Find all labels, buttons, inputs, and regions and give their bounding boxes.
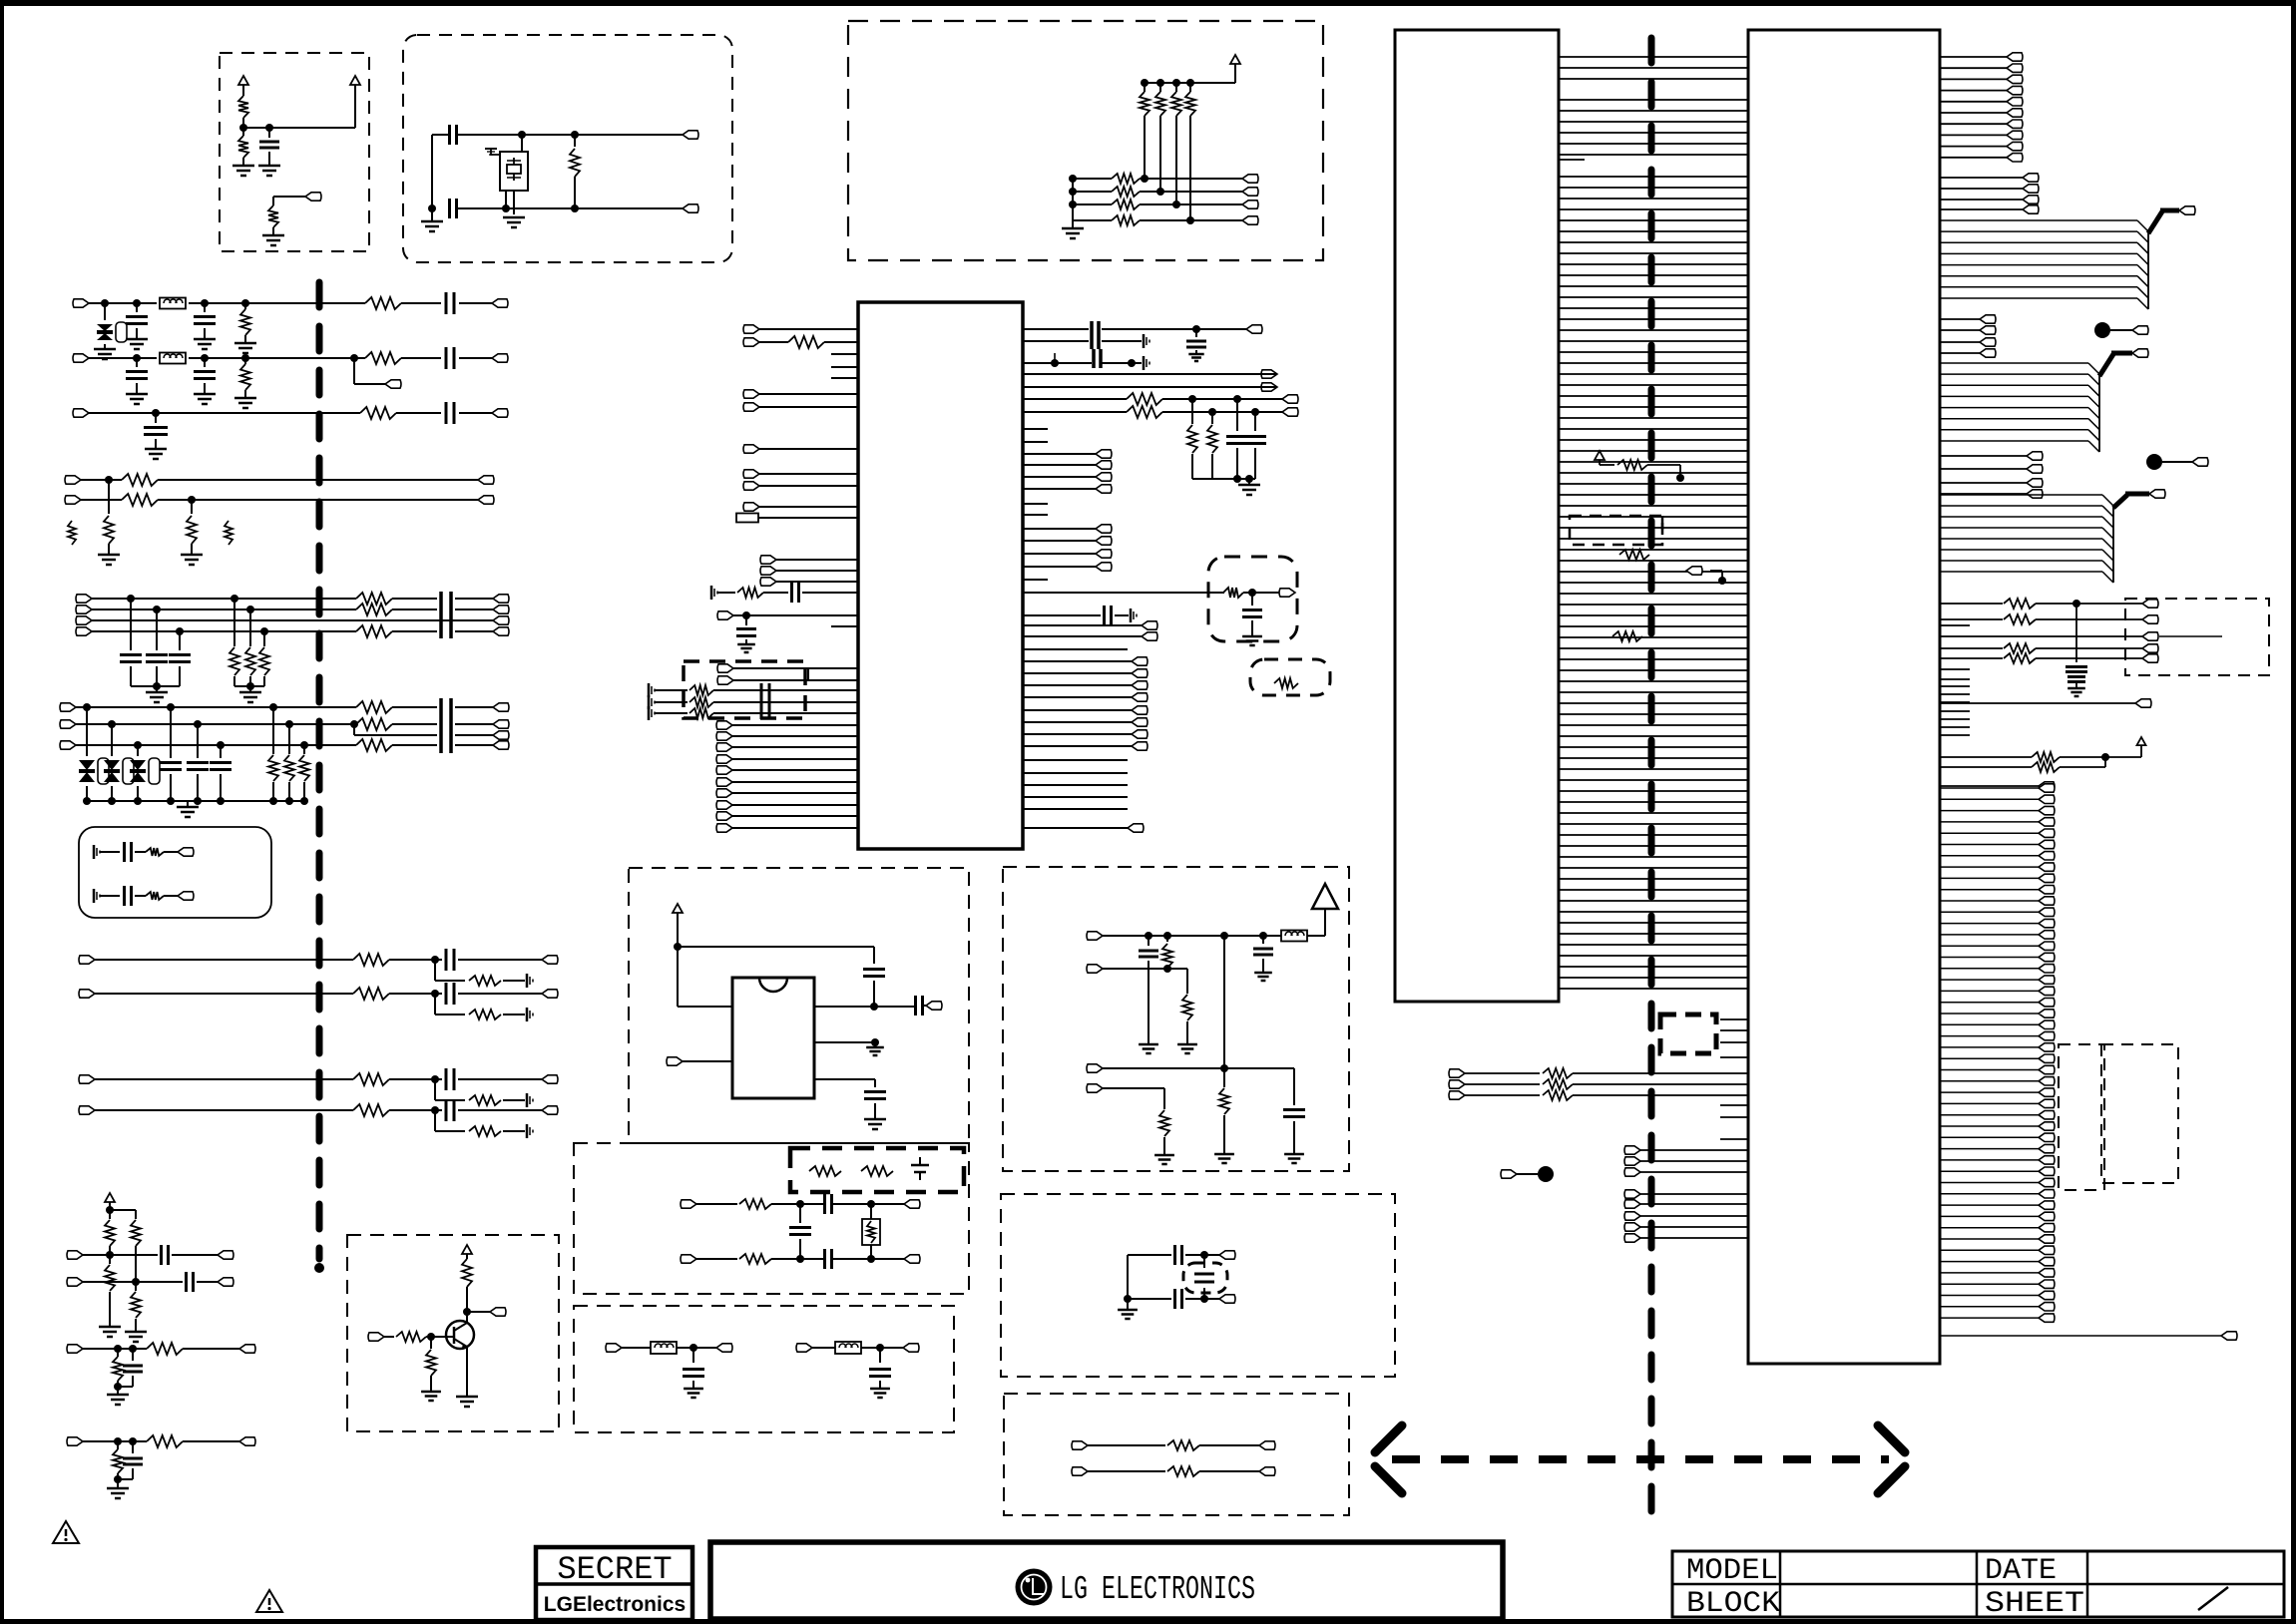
- resistor: [353, 954, 389, 966]
- resistor R4: [570, 135, 580, 208]
- dashed box regulator: [629, 868, 969, 1143]
- TVS diode D1: [94, 303, 127, 359]
- wire row4: [81, 476, 478, 484]
- resistor RT1: [462, 1259, 472, 1322]
- ground G6: [503, 217, 525, 227]
- power flag VDD2: [350, 76, 360, 128]
- branch resistor: [469, 1126, 501, 1136]
- connector PC3: [1242, 201, 1258, 208]
- branch wire: [435, 1079, 525, 1100]
- connector JR1: [923, 1002, 942, 1010]
- capacitor CA2: [1253, 936, 1273, 981]
- connector UL20: [716, 789, 858, 797]
- connector UR21: [1023, 706, 1148, 714]
- wire: [95, 1075, 542, 1083]
- capacitor C22: [169, 631, 191, 686]
- pull rail: [1192, 475, 1260, 495]
- resistor R19: [181, 500, 203, 565]
- resistor R27: [259, 631, 269, 686]
- wire row: [1624, 1234, 1748, 1242]
- resistor RA8: [1159, 1110, 1169, 1155]
- connector JK6: [903, 1344, 919, 1352]
- connector J21: [60, 720, 76, 728]
- capacitor C15: [126, 358, 148, 404]
- connector JK: [681, 1200, 737, 1208]
- transistor Q1: [446, 1321, 474, 1349]
- connector UR16: [1023, 632, 1157, 640]
- connector UL17: [716, 755, 858, 763]
- connector UL12: [760, 578, 858, 586]
- text MODEL: [1686, 1554, 1778, 1588]
- capacitor CA4: [1283, 1110, 1305, 1155]
- pin stubs CN2 lower: [1720, 1019, 1748, 1139]
- wire top rail: [432, 131, 683, 139]
- connector UL19: [716, 778, 858, 786]
- small ground: [527, 1124, 533, 1138]
- connector J23: [493, 703, 509, 711]
- wire pins CN2 right A: [1940, 53, 2023, 162]
- border frame bottom: [0, 1619, 2296, 1624]
- resistor RK: [739, 1254, 771, 1264]
- dashed box option X: [2125, 599, 2269, 675]
- capacitor C32: [123, 1441, 143, 1479]
- wire: [771, 1200, 904, 1208]
- ferrite bead FB3: [651, 1342, 677, 1354]
- wire row: [1624, 1223, 1748, 1231]
- wire bus rows: [92, 595, 493, 635]
- border frame right: [2291, 0, 2296, 1624]
- decoupled input row: [717, 611, 858, 652]
- ground GA5: [1284, 1154, 1304, 1163]
- resistor RA3: [1171, 83, 1181, 208]
- capacitor C20: [120, 599, 142, 686]
- wire row2: [1069, 188, 1242, 196]
- capacitor C12: [126, 303, 148, 349]
- power flag VF2: [2137, 737, 2146, 757]
- connector group D: [1940, 452, 2043, 498]
- connector UR13: [1023, 563, 1112, 571]
- wire row: [1624, 1157, 1748, 1165]
- wire: [861, 1344, 903, 1352]
- wire into U2 pin1: [678, 1006, 732, 1008]
- power flag VDD5: [673, 904, 683, 1007]
- pin stub: [831, 366, 858, 368]
- wire res row 4: [1940, 757, 2105, 772]
- resistor R45: [113, 1349, 123, 1387]
- resistor RA6: [1182, 995, 1192, 1044]
- resistor RB3: [1112, 200, 1140, 209]
- power flag VF1: [1595, 451, 1614, 465]
- crystal Y1: [500, 152, 528, 191]
- connector P2: [683, 131, 698, 139]
- wire bus CN1-CN2 main: [1559, 177, 1748, 989]
- connector UR25: [1023, 824, 1144, 832]
- ground G1: [232, 166, 254, 176]
- pin stub: [831, 625, 858, 627]
- pull resistor PR2: [1207, 412, 1217, 479]
- wire row: [67, 1437, 239, 1445]
- pin stub: [1023, 441, 1048, 443]
- connector JX1: [1219, 1251, 1235, 1259]
- connector P3: [683, 204, 698, 212]
- ground GA3: [1177, 1044, 1197, 1053]
- RC input row: [711, 583, 858, 603]
- connector PC4: [1242, 216, 1258, 224]
- net dot tap 1: [2094, 322, 2148, 338]
- connector: [542, 1106, 558, 1114]
- resistor R44: [147, 1343, 183, 1355]
- resistor R22: [356, 593, 392, 605]
- branch wire: [435, 994, 525, 1015]
- border frame top: [0, 0, 2296, 6]
- wire ant row4: [1087, 1084, 1164, 1109]
- resistor R24: [356, 625, 392, 637]
- connector UR11: [1023, 537, 1112, 545]
- wire res row 1: [1940, 599, 2142, 609]
- TVS diode D4: [130, 745, 160, 801]
- connector UL23: [716, 824, 858, 832]
- capacitor C28: [125, 886, 132, 906]
- connector UL3: [743, 390, 858, 398]
- connector JK2: [904, 1255, 920, 1263]
- connector J18: [493, 616, 509, 624]
- connector JS1: [1259, 1441, 1275, 1449]
- ground GR1: [864, 1119, 886, 1129]
- wire row1: [89, 299, 492, 307]
- resistor RK: [739, 1199, 771, 1209]
- connector JK3: [606, 1344, 651, 1352]
- wire base: [426, 1333, 454, 1341]
- wire row: [1624, 1146, 1748, 1154]
- wire pin column CN2 right: [1940, 784, 2055, 1323]
- wire: [677, 1344, 716, 1352]
- wire out U2: [814, 1006, 916, 1008]
- connector block CN1: [1395, 30, 1559, 1002]
- connector UL13b: [717, 668, 858, 684]
- resistor R3: [268, 205, 278, 235]
- connector UL15: [716, 732, 858, 740]
- gnd rail res: [234, 682, 264, 702]
- ground GA1: [1139, 1044, 1158, 1053]
- power flag VDD3: [1230, 55, 1240, 83]
- capacitor C26: [210, 745, 231, 801]
- resistor RA2: [1155, 83, 1165, 196]
- capacitor CK: [825, 1249, 832, 1269]
- connector JX6: [2142, 644, 2158, 652]
- filter row 1: [649, 683, 858, 697]
- wire xtal bottom pins: [506, 191, 514, 214]
- title table: [1672, 1551, 2284, 1617]
- branch resistor: [469, 976, 501, 986]
- capacitor C11: [446, 292, 454, 314]
- connector J3: [73, 354, 89, 362]
- resistor RB4: [1112, 215, 1140, 225]
- dashed box antenna match: [1003, 867, 1349, 1171]
- dashed box pull-up array: [848, 21, 1323, 260]
- connector UL5: [743, 445, 858, 453]
- connector JX8: [1940, 782, 2055, 790]
- wire top rail2: [1141, 79, 1235, 87]
- pin stub: [1023, 772, 1128, 774]
- wire rc0: [100, 851, 178, 853]
- ferrite bead FB2: [160, 353, 186, 364]
- connector J22: [60, 741, 76, 749]
- connector JX4: [2142, 615, 2158, 623]
- wire res row 4: [1940, 653, 2142, 663]
- connector JX5: [2142, 632, 2222, 640]
- wire row3: [89, 409, 492, 417]
- bus capacitor C23: [441, 698, 451, 753]
- connector UL14: [716, 721, 858, 729]
- dashed box overlay Y1: [2059, 1044, 2104, 1190]
- resistor R25: [230, 599, 239, 686]
- wire bus fan 2: [1940, 349, 2148, 452]
- connector UL18: [716, 766, 858, 774]
- wire row3: [1069, 201, 1242, 208]
- wire: [95, 1106, 542, 1114]
- connector UR10: [1023, 525, 1112, 533]
- connector P1: [305, 193, 321, 201]
- capacitor C30: [162, 1245, 169, 1265]
- connector J13: [76, 606, 92, 613]
- wire rc1: [100, 895, 178, 897]
- connector UL2 with resistor: [743, 336, 858, 348]
- connector PC1: [1242, 175, 1258, 183]
- wire ant row2: [1087, 965, 1187, 994]
- connector J14: [76, 616, 92, 624]
- capacitor CK: [825, 1194, 832, 1214]
- pin stub: [1023, 579, 1048, 581]
- resistor R30: [356, 739, 392, 751]
- wire row plain: [1940, 635, 2142, 637]
- ground: [107, 1395, 129, 1405]
- wire bus fan 1: [1940, 206, 2195, 309]
- wire ant row: [1087, 932, 1281, 940]
- capacitor C21: [146, 609, 168, 686]
- resistor R45: [113, 1441, 123, 1479]
- ground: [107, 1488, 129, 1498]
- resistor: [353, 1073, 389, 1085]
- text SHEET: [1985, 1587, 2084, 1621]
- sheet slash: [2198, 1587, 2228, 1610]
- row cap small: [1023, 606, 1137, 625]
- bus capacitor C19: [441, 592, 451, 638]
- resistor R29: [356, 718, 392, 730]
- wire row4: [1073, 219, 1242, 221]
- connector J24: [493, 720, 509, 728]
- resistor R12: [234, 303, 256, 353]
- wire to cap: [678, 946, 874, 948]
- capacitor CV1: [2066, 604, 2087, 696]
- connector UL21: [716, 801, 858, 809]
- filter row 2: [649, 695, 858, 709]
- connector J26: [493, 741, 509, 749]
- resistor RV1: [1617, 460, 1684, 482]
- text LG ELECTRONICS: [1060, 1571, 1255, 1608]
- branch resistor: [469, 1095, 501, 1105]
- capacitor: [446, 1068, 454, 1090]
- net dot tap 2: [2146, 454, 2208, 470]
- wire row b: [67, 1278, 218, 1286]
- resistor R17: [122, 494, 158, 506]
- wire row a: [67, 1251, 218, 1259]
- resistor R33: [299, 745, 309, 801]
- capacitor CK3: [789, 1204, 811, 1259]
- wire row: [67, 1345, 239, 1353]
- connector J8: [65, 476, 81, 484]
- antenna symbol: [1312, 884, 1338, 936]
- connector JT2: [368, 1333, 394, 1341]
- connector UR12: [1023, 550, 1112, 558]
- connector J15: [76, 627, 92, 635]
- stub to J5: [354, 358, 385, 384]
- small ground G11: [94, 889, 100, 903]
- TVS diode D3: [104, 724, 134, 801]
- resistor: [353, 1104, 389, 1116]
- logo LG: [1016, 1569, 1053, 1606]
- resistor RV2: [1619, 550, 1649, 560]
- connector J29: [79, 956, 95, 964]
- capacitor C32: [123, 1349, 143, 1387]
- svg-text:SECRET: SECRET: [557, 1551, 672, 1588]
- connector UL22: [716, 812, 858, 820]
- connector UR23: [1023, 730, 1148, 738]
- connector J27: [178, 848, 194, 856]
- coupling rail: [1023, 349, 1149, 370]
- svg-text:LGElectronics: LGElectronics: [544, 1593, 686, 1616]
- dashed box diff filter: [574, 1143, 969, 1294]
- connector UL8: [743, 503, 858, 511]
- warning triangle 1: [53, 1521, 79, 1543]
- ground GK2: [870, 1389, 890, 1398]
- connector UR8: [1023, 473, 1112, 481]
- resistor R23: [356, 604, 392, 615]
- net stub with dot: [1501, 1166, 1554, 1182]
- wire collector tap: [467, 1311, 490, 1313]
- ferrite bead FBA: [1281, 931, 1325, 942]
- small ground G5: [485, 149, 500, 155]
- resistor R11: [365, 297, 401, 309]
- pin stub: [1023, 648, 1128, 650]
- resistor RB1: [1112, 174, 1140, 184]
- wire res row 2: [1940, 614, 2142, 624]
- connector JS2: [1259, 1467, 1275, 1475]
- power flag VDD4: [105, 1193, 136, 1219]
- wire row: [1624, 1212, 1748, 1220]
- heavy dashed option box W: [1660, 1015, 1716, 1053]
- text SECRET: [557, 1551, 672, 1588]
- ground GT2: [456, 1397, 478, 1407]
- resistor R41: [131, 1220, 141, 1282]
- gnd rail bus2: [83, 797, 308, 817]
- connector UR19: [1023, 681, 1148, 689]
- wire: [95, 956, 542, 964]
- wire res row 3: [1940, 643, 2142, 653]
- pin stubs CN2 right: [1940, 625, 1970, 735]
- resistor R31: [268, 707, 278, 801]
- wire left drop2: [1072, 179, 1074, 228]
- connector UL10: [760, 556, 858, 564]
- resistor R2: [238, 128, 248, 166]
- crystal Y2: [1183, 1255, 1227, 1299]
- connector J12: [76, 595, 92, 603]
- capacitor C3: [450, 199, 457, 218]
- row UR long: [1023, 588, 1279, 598]
- connector J11: [478, 496, 494, 504]
- connector J31: [79, 1075, 95, 1083]
- dashed box PU bias: [220, 53, 369, 251]
- connector UL11: [760, 567, 858, 575]
- option capacitor: [911, 1157, 929, 1180]
- resistor R21 spare: [225, 521, 232, 545]
- resistor RA7: [1219, 1068, 1229, 1154]
- wire bus fan 3: [1940, 490, 2165, 583]
- connector UR9: [1023, 485, 1112, 493]
- connector UR22: [1023, 718, 1148, 726]
- resistor RT3: [426, 1337, 436, 1392]
- wire xtal bottom row: [1128, 1289, 1219, 1309]
- resistor R42: [99, 1255, 121, 1337]
- capacitor bars C40: [1092, 321, 1099, 349]
- wire row: [1624, 1168, 1748, 1176]
- connector JX2: [1219, 1295, 1235, 1303]
- connector UL16: [716, 743, 858, 751]
- dashed box bead filters: [574, 1306, 954, 1432]
- pin stub: [1023, 796, 1128, 798]
- svg-text:LG ELECTRONICS: LG ELECTRONICS: [1060, 1571, 1255, 1608]
- wire long with connector: [1940, 699, 2151, 707]
- branch wire: [435, 1110, 525, 1131]
- connector J35: [239, 1345, 255, 1353]
- text DATE: [1985, 1554, 2057, 1588]
- connector J34: [218, 1278, 233, 1286]
- pin stub: [1023, 759, 1128, 761]
- ground GT1: [421, 1392, 441, 1401]
- ground GK1: [684, 1389, 703, 1398]
- capacitor C18: [144, 413, 168, 459]
- resistor R35: [146, 892, 164, 900]
- pad UL9: [736, 514, 858, 523]
- small ground G10: [94, 845, 100, 859]
- branch resistor: [469, 1010, 501, 1019]
- pin stub CN1: [1559, 159, 1585, 161]
- wire ant long drop: [1220, 936, 1228, 1072]
- power flag VDD1: [238, 76, 248, 96]
- small ground: [527, 1008, 533, 1021]
- resistor R34: [146, 848, 164, 856]
- boxed resistor RK3: [862, 1204, 880, 1259]
- resistor RV3: [1612, 631, 1642, 641]
- text LGElectronics: [544, 1593, 686, 1616]
- capacitor CR3: [864, 1092, 886, 1120]
- pin stub: [1023, 428, 1048, 430]
- wire bottom rail: [457, 204, 683, 212]
- connector UR18: [1023, 669, 1148, 677]
- resistor R32: [284, 724, 294, 801]
- rounded info box: [79, 827, 271, 918]
- connector J19: [493, 627, 509, 635]
- pull capacitor PC2: [1244, 412, 1266, 479]
- capacitor C17: [446, 402, 454, 424]
- cap to ground: [1186, 329, 1206, 361]
- connector JR2: [667, 1057, 732, 1065]
- dashed box input filter: [684, 661, 805, 718]
- wire bottom long: [1940, 1332, 2237, 1340]
- capacitor C2: [450, 125, 457, 145]
- wire: [771, 1255, 904, 1263]
- resistor R43: [125, 1282, 147, 1342]
- connector UL13a: [717, 664, 858, 672]
